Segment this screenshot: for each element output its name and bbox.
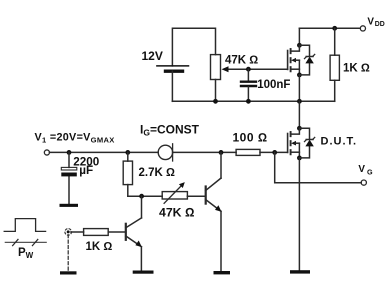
svg-text:D.U.T.: D.U.T.	[321, 136, 358, 148]
pulse axis slash left	[13, 239, 18, 245]
resistor 100ohm	[236, 149, 260, 155]
pulse axis line	[5, 241, 46, 243]
wire 1K top lead	[334, 28, 336, 55]
diode body zener of M1	[299, 45, 314, 75]
node 2200uF top	[67, 150, 72, 155]
wire VG branch	[275, 152, 362, 182]
terminal VDD	[360, 26, 365, 31]
capacitor 100nF	[241, 82, 256, 86]
wire battery loop top	[172, 28, 215, 66]
node at 1K top	[332, 26, 337, 31]
node 100nF bottom	[246, 99, 251, 104]
current source IG circle	[158, 145, 172, 159]
node 100nF top	[246, 67, 251, 72]
variable arrow of 47K	[164, 184, 183, 203]
terminal pulse input dashed	[65, 229, 72, 236]
node gate junction	[272, 150, 277, 155]
ground 2200uF	[60, 204, 79, 207]
current source bar	[172, 144, 174, 161]
pulse axis slash right	[32, 239, 37, 245]
pulse waveform symbol	[4, 219, 45, 232]
svg-text:1K Ω: 1K Ω	[343, 63, 370, 75]
svg-text:12V: 12V	[142, 49, 163, 63]
resistor 1K (drain load)	[330, 55, 339, 80]
capacitor 2200uF leads	[68, 152, 70, 167]
ground Q2 emitter	[214, 271, 231, 274]
wire 100nF bottom lead	[247, 87, 249, 101]
resistor 2.7K leads	[127, 152, 129, 161]
transistor Q2	[206, 152, 222, 271]
wire pot wiper to M1 gate	[226, 68, 288, 70]
terminal V1	[44, 150, 49, 155]
ground Q1 emitter	[133, 271, 154, 274]
wire pot bottom lead	[215, 80, 217, 102]
node Q2 collector	[219, 150, 224, 155]
node DUT drain rail	[297, 99, 302, 104]
wire 100nF top lead	[247, 69, 249, 80]
svg-text:2.7K Ω: 2.7K Ω	[139, 167, 175, 179]
capacitor 2200uF plates	[61, 167, 77, 170]
svg-text:47K Ω: 47K Ω	[225, 55, 258, 67]
wire M1 source to rail	[298, 75, 300, 101]
svg-text:1K Ω: 1K Ω	[86, 241, 113, 253]
wire mid rail	[172, 100, 334, 102]
wire 100ohm to DUT gate	[260, 151, 288, 153]
svg-text:µF: µF	[79, 164, 93, 177]
transistor Q1	[126, 196, 142, 270]
resistor 2.7K body	[123, 161, 132, 185]
wire DUT drain lead	[298, 101, 300, 128]
svg-text:100 Ω: 100 Ω	[233, 130, 268, 144]
wire 1K bottom lead	[334, 80, 336, 101]
wire pulse to 1K	[71, 231, 84, 233]
node Q1 collector junction	[139, 194, 144, 199]
wire 2.7K bottom to 47K var	[128, 195, 162, 197]
resistor 1K base	[84, 229, 109, 236]
wire V1 to current source	[50, 151, 159, 153]
node pot bottom	[213, 99, 218, 104]
resistor 47K variable body	[162, 192, 187, 199]
transistor DUT MOSFET	[288, 126, 302, 160]
potentiometer 47K body	[211, 55, 221, 80]
wire top-right rail VDD	[299, 27, 360, 29]
ground DUT source	[290, 270, 310, 273]
battery 12V	[157, 66, 189, 71]
wire dashed down	[67, 235, 69, 272]
transistor M1 (upper MOSFET)	[288, 28, 302, 77]
svg-text:100nF: 100nF	[257, 79, 290, 91]
diode body zener of DUT	[299, 128, 314, 158]
wire battery bottom lead	[171, 71, 173, 101]
wire 47K var to Q2 base	[187, 195, 205, 197]
svg-text:47K Ω: 47K Ω	[159, 206, 194, 220]
terminal VG	[361, 180, 366, 185]
node 2.7K top	[125, 150, 130, 155]
wire DUT source down	[298, 158, 300, 270]
wire current source to 100ohm	[173, 151, 237, 153]
pot wiper arrowhead	[222, 66, 229, 72]
ground pulse input	[60, 271, 77, 274]
wire 1K to Q1 base	[108, 231, 126, 233]
